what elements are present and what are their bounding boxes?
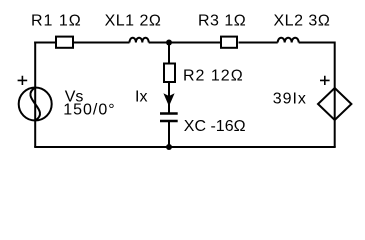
svg-text:R1 1Ω: R1 1Ω (31, 13, 82, 30)
svg-text:R2 12Ω: R2 12Ω (183, 68, 244, 85)
inductor XL1 (130, 38, 149, 43)
svg-text:XC -16Ω: XC -16Ω (184, 118, 246, 135)
current arrow Ix (head) (164, 94, 173, 105)
svg-text:R3 1Ω: R3 1Ω (198, 13, 246, 30)
resistor R3 (221, 37, 237, 48)
svg-text:Ix: Ix (135, 89, 147, 106)
capacitor XC plate bottom (160, 120, 178, 123)
svg-text:39Ix: 39Ix (273, 91, 307, 108)
source Vs sine curve (30, 88, 40, 121)
wire XL1 to R3 (149, 42, 221, 44)
39Ix plus sign (320, 76, 330, 85)
wire XL2 to top-right corner (299, 42, 335, 44)
resistor R2 (164, 64, 175, 83)
wire middle branch upper (168, 43, 170, 64)
svg-text:150/0°: 150/0° (63, 101, 115, 118)
capacitor XC plate top (160, 112, 178, 115)
wire bottom rail (34, 146, 336, 148)
resistor R1 (56, 37, 73, 48)
dependent source 39Ix diamond (318, 88, 351, 120)
Vs plus sign (18, 76, 28, 85)
junction node bottom (dot) (166, 144, 172, 150)
wire right vertical (334, 42, 336, 148)
source Vs circle (19, 88, 52, 121)
junction node top (dot) (166, 40, 172, 46)
svg-text:XL2 3Ω: XL2 3Ω (274, 13, 331, 30)
wire left vertical (34, 42, 36, 148)
wire top-left segment (34, 42, 55, 44)
wire R3 to XL2 (239, 42, 278, 44)
wire R1 to XL1 (73, 42, 130, 44)
wire capacitor to bottom rail (168, 121, 170, 147)
wire middle branch lower (through arrow to capacitor) (168, 82, 170, 113)
svg-text:XL1 2Ω: XL1 2Ω (105, 13, 162, 30)
inductor XL2 (278, 38, 299, 43)
